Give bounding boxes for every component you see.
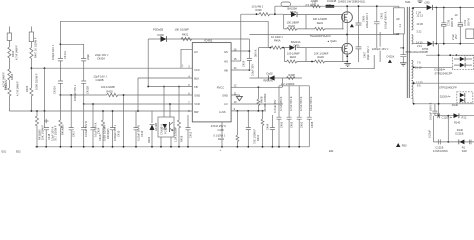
node: [92, 103, 94, 105]
resistor R406: [8, 60, 14, 87]
nodes on +B rail: [436, 7, 438, 9]
wire: S2 rail: [413, 43, 427, 45]
capacitor column x83 lower: [81, 104, 88, 147]
wire: jog to second cap column: [60, 44, 83, 58]
svg-text:10K 1/10WF: 10K 1/10WF: [314, 52, 329, 56]
svg-text:R40A: R40A: [274, 38, 281, 42]
svg-text:4.7uF 50V K: 4.7uF 50V K: [289, 96, 293, 111]
capacitor C402: [307, 86, 314, 147]
svg-text:10 1/4W J: 10 1/4W J: [252, 4, 264, 8]
transformer core: [407, 7, 409, 98]
resistor R408 on Da02 rail: [264, 73, 296, 88]
resistor R410: [253, 93, 268, 147]
capacitor C411 column: [69, 84, 77, 147]
resistor on HV rail: [311, 5, 321, 8]
wire: row2 gate rail: [259, 47, 271, 49]
svg-text:4.7uF 50V K: 4.7uF 50V K: [299, 96, 303, 111]
svg-text:R1: R1: [462, 145, 466, 149]
svg-text:D409: D409: [158, 33, 165, 37]
wire: S4 rail: [414, 82, 474, 84]
svg-text:D121B: D121B: [455, 132, 463, 136]
secondary winding S4: [412, 80, 414, 98]
resistor R404 (fusible, box+zigzag): [7, 27, 18, 61]
dual diode D120B package: [435, 56, 474, 76]
svg-text:0.01uF 100V K: 0.01uF 100V K: [428, 102, 432, 120]
capacitor C406: [211, 111, 251, 147]
junction dots on bottom bus: [36, 146, 189, 148]
svg-text:R12: R12: [462, 116, 467, 120]
ground arrow bottom: [396, 143, 407, 148]
resistor R420: [101, 85, 124, 97]
resistor R415 bottom left: [35, 111, 44, 147]
wire: HS vertical to top rail: [248, 39, 250, 51]
svg-text:C4147: C4147: [98, 133, 102, 141]
capacitor C421B: [81, 81, 89, 104]
svg-text:100K 1/10W F: 100K 1/10W F: [35, 73, 39, 90]
capacitor C417A: [51, 44, 67, 80]
svg-text:7 6: 7 6: [417, 61, 421, 65]
wire: primary box top feed: [398, 6, 400, 8]
capacitor C407 (lower snubber): [356, 35, 371, 63]
wire: return long drop x438.6: [438, 44, 440, 116]
svg-text:R8D (R): R8D (R): [264, 79, 274, 83]
svg-text:22pF 16V J: 22pF 16V J: [95, 53, 109, 57]
svg-text:R140: R140: [457, 128, 464, 132]
svg-text:STPS2045CFP: STPS2045CFP: [439, 85, 457, 89]
node: [60, 94, 62, 96]
svg-text:HO: HO: [224, 60, 228, 64]
svg-text:0.22uF: 0.22uF: [427, 130, 431, 138]
ground: primary ground under Q601: [344, 63, 351, 66]
svg-text:BW: BW: [194, 110, 199, 114]
svg-text:HS: HS: [224, 50, 228, 54]
wire: top HV rail: [275, 5, 399, 7]
svg-text:BA159A: BA159A: [288, 6, 298, 10]
svg-text:R414(W): R414(W): [61, 124, 65, 135]
svg-text:4.7uF 25V K: 4.7uF 25V K: [279, 96, 283, 111]
pin HB (14): [224, 66, 250, 73]
svg-text:C406: C406: [218, 128, 225, 132]
svg-text:E02: E02: [16, 149, 21, 153]
svg-text:C421A: C421A: [53, 86, 57, 94]
svg-text:Da02: Da02: [267, 72, 274, 76]
svg-text:100pF 1KV J: 100pF 1KV J: [51, 44, 55, 60]
transistor Q601 (MOSFET): [310, 34, 353, 55]
svg-text:R408: R408: [289, 73, 296, 77]
capacitor C422A to ground: [386, 55, 406, 67]
wire: D409 rail: [148, 38, 249, 40]
page ref markers: [2, 149, 335, 153]
wire: bottom ground bus: [35, 146, 309, 148]
svg-text:C417: C417: [72, 130, 76, 137]
wire: x433 drop: [432, 116, 434, 142]
resistor R40B: [257, 87, 260, 111]
svg-text:25V: 25V: [454, 34, 458, 39]
svg-text:R404: R404: [11, 50, 15, 57]
resistor R414: [59, 95, 65, 147]
capacitor C750: [441, 8, 458, 44]
svg-text:C420A: C420A: [97, 57, 105, 61]
svg-text:C419: C419: [242, 60, 246, 67]
svg-text:C414: C414: [96, 127, 100, 134]
resistor R418: [174, 87, 184, 147]
capacitor C405: [287, 86, 294, 147]
svg-text:10K 1/10WF: 10K 1/10WF: [175, 28, 190, 32]
svg-text:STM4103LCD06PP: STM4103LCD06PP: [406, 50, 429, 54]
text R140/D121B: [455, 128, 463, 136]
svg-text:30pF 1KV J: 30pF 1KV J: [366, 46, 370, 60]
svg-text:C408: C408: [310, 121, 314, 128]
capacitor C120A: [428, 102, 437, 120]
wire: Q601 source down: [346, 55, 348, 62]
gate ladder Q601: D401 top / Ra04+Ra03 bottom: [285, 40, 348, 63]
svg-text:100 1/10WF: 100 1/10WF: [101, 85, 116, 89]
inductor L600 (bead): [326, 5, 335, 8]
pin BW: [188, 109, 199, 114]
svg-text:C400: C400: [361, 15, 365, 22]
pin VCC: [188, 65, 200, 72]
svg-text:R406: R406: [10, 73, 14, 80]
wire: C401 branch: [374, 6, 380, 48]
wire: top bus: [60, 20, 268, 22]
svg-text:HB: HB: [224, 69, 228, 73]
wire: VCR rail: [84, 103, 193, 105]
svg-text:C415: C415: [116, 130, 120, 137]
svg-text:4.7M 1/4W F: 4.7M 1/4W F: [15, 45, 19, 60]
svg-text:C412: C412: [140, 130, 144, 137]
pin labels S3: [415, 61, 422, 70]
svg-text:24!: 24!: [396, 17, 400, 21]
svg-text:C417A: C417A: [63, 51, 67, 59]
node: [102, 110, 104, 112]
svg-text:(2N): (2N): [425, 0, 430, 4]
svg-text:R421: R421: [182, 33, 189, 37]
pin labels S2: [416, 41, 423, 48]
svg-text:D401: D401: [294, 43, 301, 47]
svg-text:3.3uF 35V: 3.3uF 35V: [250, 64, 254, 76]
capacitor C413: [186, 115, 193, 147]
wire: rail y115.7: [435, 115, 474, 117]
pin labels S1: [416, 10, 424, 33]
resistor R413: [98, 111, 110, 147]
svg-text:C403: C403: [290, 121, 294, 128]
svg-text:R413(W): R413(W): [106, 128, 110, 139]
diode D121B: [459, 140, 471, 145]
svg-text:35V M: 35V M: [466, 19, 470, 27]
wire: lower rail BW: [9, 110, 192, 112]
diode D409: [153, 28, 167, 42]
ground arrow at Q600 source: [350, 24, 354, 27]
diode D750 lower: [406, 41, 474, 54]
pin GND (11) + ground: [222, 91, 242, 101]
svg-text:22pF: 22pF: [86, 54, 90, 60]
svg-text:1N4148: 1N4148: [327, 0, 337, 3]
svg-text:1/10W: 1/10W: [311, 0, 319, 3]
node: [178, 86, 180, 88]
wire: BLK rail from x138: [138, 78, 192, 111]
capacitor C416 label: [4, 79, 8, 90]
svg-text:C121B: C121B: [435, 145, 443, 149]
nodes bus: [221, 146, 223, 148]
svg-text:R410: R410: [256, 134, 260, 141]
svg-text:Ra03: Ra03: [318, 55, 325, 59]
svg-text:10 30: 10 30: [416, 22, 423, 26]
dual diode D120A package: [440, 92, 473, 103]
pin FB: [148, 83, 198, 89]
svg-text:470nF 25V K: 470nF 25V K: [211, 124, 226, 128]
resistor Ra11: [213, 111, 238, 147]
secondary winding S3: [412, 60, 414, 78]
secondary winding S1: [412, 8, 414, 30]
resistor R40A: [270, 35, 285, 49]
svg-text:0.1uF 50V K: 0.1uF 50V K: [309, 96, 313, 111]
capacitor C401 labels: [380, 11, 388, 29]
capacitor C418: [44, 111, 58, 147]
svg-text:22pF 16V J: 22pF 16V J: [94, 74, 108, 78]
diode Da02: [249, 72, 302, 81]
text C121B: [433, 145, 467, 153]
svg-text:GND: GND: [222, 93, 228, 97]
resistor R421: [175, 28, 192, 41]
svg-text:FB: FB: [194, 85, 198, 89]
pin HS (16): [224, 47, 249, 54]
svg-text:GND: GND: [194, 93, 200, 97]
svg-text:CNX48 V: CNX48 V: [160, 124, 164, 135]
svg-text:C405: C405: [280, 121, 284, 128]
wire: top bus right end drop: [267, 21, 269, 47]
connector CN400: [281, 2, 291, 7]
svg-text:LLSS: LLSS: [219, 110, 226, 114]
capacitor C403: [297, 86, 304, 147]
capacitor C420A label: [95, 53, 109, 61]
wire: Q601 drain to HS node: [346, 35, 348, 44]
wire: aux 3F drop: [402, 34, 404, 55]
svg-text:E01: E01: [329, 149, 334, 153]
svg-text:STPS2045CFP: STPS2045CFP: [435, 72, 453, 76]
svg-text:1000pF 50V J: 1000pF 50V J: [73, 84, 77, 101]
resistor R405 lower: [25, 68, 33, 111]
capacitor C407a: [277, 86, 284, 147]
svg-text:76.7 1/10W F: 76.7 1/10W F: [54, 125, 58, 141]
diode on y115 rail: [454, 113, 459, 118]
pin HV: [181, 49, 198, 68]
op-amp controller IC401 box: [192, 39, 231, 122]
svg-text:C413: C413: [188, 131, 192, 138]
svg-text:VCR: VCR: [194, 102, 200, 106]
svg-text:C407: C407: [362, 51, 366, 58]
wire: x148 drop to FB: [147, 39, 149, 87]
pin labels S4: [416, 80, 423, 87]
transformer T601 label: [405, 0, 430, 4]
svg-text:10 1/4W J: 10 1/4W J: [271, 35, 283, 39]
pin RVCC (12): [217, 84, 283, 90]
svg-text:E01: E01: [2, 149, 7, 153]
wire: x124 drop: [123, 95, 125, 147]
svg-text:0.01uF 630V K: 0.01uF 630V K: [383, 11, 387, 29]
svg-text:▲ Qa01: ▲ Qa01: [327, 39, 337, 43]
svg-text:Ta01: Ta01: [405, 0, 411, 4]
svg-text:0 1/10W J: 0 1/10W J: [213, 133, 225, 137]
svg-text:D120A ⊢: D120A ⊢: [440, 94, 452, 98]
capacitor C415: [110, 111, 120, 147]
svg-text:VCC: VCC: [194, 68, 200, 72]
primary winding box: [394, 8, 405, 36]
wire: drop at x60: [59, 21, 61, 58]
svg-text:R140: R140: [454, 120, 461, 124]
wire: x258 drop to Da02: [258, 48, 260, 78]
wire: S3 rail to D120B: [414, 66, 453, 68]
svg-text:D120B ⊢: D120B ⊢: [435, 67, 447, 71]
capacitor C419 (bootstrap): [242, 49, 258, 76]
svg-text:8.06K 1/10WF: 8.06K 1/10WF: [263, 93, 267, 110]
pin GND left: [188, 92, 200, 98]
capacitor C400: [356, 5, 370, 34]
resistor R407 (fusible, box+zigzag): [29, 27, 37, 69]
node bottom bus: [278, 146, 280, 148]
svg-text:R407 10 1/10W F: R407 10 1/10W F: [34, 37, 38, 58]
pin HO (15): [224, 57, 241, 64]
svg-text:C404: C404: [265, 123, 269, 130]
svg-text:1.2K 1/10WF: 1.2K 1/10WF: [174, 126, 178, 142]
svg-text:C401: C401: [380, 12, 384, 19]
zener D404: [147, 111, 158, 147]
node: [60, 43, 62, 45]
wire: box segment bottom: [340, 55, 374, 69]
node: [163, 86, 165, 88]
svg-text:3 22: 3 22: [416, 29, 422, 33]
node: [112, 110, 114, 112]
svg-text:100 1/8WF: 100 1/8WF: [287, 52, 300, 56]
wire: S1 top out: [413, 7, 427, 10]
transistor Q600 (MOSFET): [342, 12, 353, 24]
svg-text:100 1/8WF: 100 1/8WF: [287, 20, 300, 24]
node: [70, 94, 72, 96]
svg-text:12 13: 12 13: [416, 14, 423, 18]
wire: primary box bottom to HS rail: [398, 33, 400, 36]
wire: main VCC bus: [31, 67, 192, 69]
svg-text:1N60S 1/W 2086241(1): 1N60S 1/W 2086241(1): [338, 0, 365, 3]
pin BLK: [188, 74, 199, 80]
capacitor C420B label: [94, 74, 108, 82]
wire: return drop x436: [435, 8, 437, 44]
secondary winding S2: [412, 35, 414, 44]
wire: Q600 source to HS node: [346, 24, 348, 35]
capacitor C417B: [81, 54, 90, 81]
wire: box segment right: [379, 32, 381, 62]
capacitor C421A: [53, 81, 63, 95]
gate ladder Q600: D400 top / Ra02+Ra01 bottom: [284, 6, 344, 30]
wire: jog up at x274.9: [274, 6, 276, 14]
wire: aux cap rail: [279, 85, 309, 87]
svg-text:220uF 1KV J: 220uF 1KV J: [365, 12, 369, 28]
node: [169, 103, 171, 105]
svg-text:PC401: PC401: [163, 126, 167, 134]
svg-text:PDDa2B: PDDa2B: [153, 28, 163, 32]
svg-text:R50: R50: [402, 144, 407, 148]
svg-text:D404: D404: [147, 136, 151, 143]
resistor R403 label: [2, 72, 6, 87]
pin LO (10): [224, 100, 283, 106]
svg-text:BA231A: BA231A: [291, 40, 301, 44]
svg-text:R405: R405: [25, 85, 29, 92]
svg-text:R40B: R40B: [260, 96, 264, 103]
node: [44, 110, 46, 112]
svg-text:2.2 1/10WF: 2.2 1/10WF: [281, 82, 295, 86]
svg-text:8 5: 8 5: [417, 84, 421, 88]
svg-text:C422A: C422A: [386, 55, 394, 59]
text: snubber values: [306, 0, 366, 7]
resistor R419 vertical: [35, 68, 45, 111]
wire: rail y141.9: [433, 141, 474, 143]
node: [31, 110, 33, 112]
pin VCR: [188, 100, 200, 106]
svg-text:0.01 50V: 0.01 50V: [4, 79, 8, 90]
FB rail nodes: [147, 86, 149, 88]
node: [36, 110, 38, 112]
svg-text:IC401: IC401: [204, 39, 212, 43]
svg-text:BLK: BLK: [194, 76, 199, 80]
capacitor C422 wire with label: [372, 47, 404, 51]
svg-text:C402: C402: [300, 121, 304, 128]
diode D750 top: [427, 5, 474, 10]
capacitor on y115 rail: [438, 113, 440, 118]
svg-text:C750: C750: [446, 19, 450, 26]
capacitor C412: [134, 111, 144, 147]
svg-text:10K 1/10WF: 10K 1/10WF: [313, 17, 328, 21]
capacitor C414: [91, 104, 101, 147]
pin LLSS (9): [219, 107, 266, 114]
wire: IC bottom stub: [221, 122, 223, 147]
svg-text:0.01uF 50V K: 0.01uF 50V K: [84, 121, 88, 137]
node: [83, 103, 85, 105]
optocoupler PC401: [158, 87, 174, 147]
svg-text:R140: R140: [452, 103, 459, 107]
svg-text:AX13B: AX13B: [154, 123, 158, 131]
svg-text:LO: LO: [224, 102, 227, 106]
svg-text:RVCC: RVCC: [217, 85, 224, 89]
svg-text:Ra01: Ra01: [317, 21, 324, 25]
node: R419 joint: [44, 67, 46, 69]
svg-text:4.7M 1/4W F: 4.7M 1/4W F: [16, 81, 20, 96]
svg-text:10K 1/10W F: 10K 1/10W F: [41, 124, 45, 140]
resistor R426: [241, 4, 284, 15]
svg-text:390V M: 390V M: [450, 18, 454, 27]
svg-text:C751: C751: [463, 19, 467, 26]
wire: rail y55: [426, 54, 474, 56]
node: VCC bus joint: [31, 67, 33, 69]
svg-text:Ra11: Ra11: [218, 137, 225, 141]
svg-text:27uF: 27uF: [451, 34, 455, 40]
svg-text:C421B: C421B: [86, 86, 90, 94]
wire: Q600 drain up: [346, 6, 348, 12]
capacitor C121B: [438, 139, 440, 144]
svg-text:D18: D18: [462, 149, 467, 153]
svg-text:1.1: 1.1: [398, 23, 402, 27]
capacitor C404: [265, 99, 277, 146]
svg-text:2200pF 1KV J: 2200pF 1KV J: [372, 47, 389, 51]
wire: HO link up to gate rail: [240, 14, 242, 61]
svg-text:0.47uF 25V: 0.47uF 25V: [273, 99, 277, 113]
capacitor C751: [458, 8, 471, 44]
capacitor 27uF mid: [451, 29, 474, 40]
resistor R403 body: [4, 81, 20, 111]
wire: R420 row: [60, 94, 106, 96]
svg-text:0.018 100VK: 0.018 100VK: [433, 149, 448, 153]
svg-text:Ra04: Ra04: [290, 55, 297, 59]
svg-text:3KV K: 3KV K: [253, 49, 257, 57]
svg-text:HV: HV: [194, 50, 198, 54]
wire: S4 lower rail: [413, 98, 474, 104]
